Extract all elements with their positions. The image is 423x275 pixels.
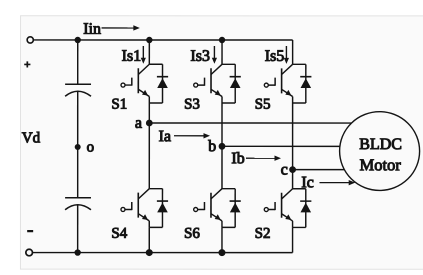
junction: capacitor / bottom bus (75, 250, 80, 255)
label + (positive polarity) (24, 61, 30, 67)
node b (phase b) (219, 143, 225, 149)
wire: phase a line to motor (149, 122, 355, 124)
junction: leg 1 / top bus (147, 37, 152, 42)
wire: capacitor branch lower (77, 205, 79, 253)
BLDC motor M1 (340, 112, 420, 191)
antiparallel diode of S6 (222, 189, 241, 228)
junction: leg 2 / top bus (219, 37, 224, 42)
junction: leg 1 / bottom bus (146, 250, 152, 256)
label S5 (256, 99, 270, 109)
wire: leg 2 bottom (lower switch to bus) (221, 227, 223, 252)
antiparallel diode of S1 (149, 64, 168, 103)
wire: leg 2 top (bus to upper switch) (221, 40, 223, 64)
current label Iin with arrow (84, 23, 140, 34)
wire: capacitor branch upper (77, 40, 79, 84)
current label Is3 with arrow (191, 46, 217, 64)
wire: capacitor branch middle (77, 91, 79, 197)
current label Ia with arrow (159, 131, 210, 142)
wire: leg 1 bottom (lower switch to bus) (148, 227, 150, 252)
capacitor upper (DC link) (65, 84, 91, 96)
label S2 (256, 228, 270, 238)
label c (281, 167, 287, 175)
node c (phase c) (290, 167, 296, 173)
label Vd (DC source voltage) (22, 132, 40, 143)
junction: leg 2 / bottom bus (219, 250, 225, 256)
junction: capacitor / top bus (75, 37, 80, 42)
transistor S1 (IGBT) (121, 64, 149, 103)
node a (phase a) (146, 120, 152, 126)
wire: leg 3 top (bus to upper switch) (292, 40, 294, 64)
wire: leg 1 middle (upper switch to lower switch) (148, 103, 150, 189)
label S1 (112, 99, 126, 109)
transistor S4 (IGBT) (121, 189, 149, 228)
transistor S2 (IGBT) (264, 189, 292, 228)
label S4 (112, 228, 127, 238)
label S3 (185, 99, 199, 109)
capacitor lower (DC link) (65, 198, 91, 210)
current label Is5 with arrow (265, 46, 289, 64)
wire: leg 3 middle (upper switch to lower switch) (292, 103, 294, 189)
wire: top DC bus (33, 39, 292, 41)
transistor S6 (IGBT) (194, 189, 222, 228)
label b (208, 140, 215, 151)
current label Ib with arrow (232, 152, 281, 163)
transistor S5 (IGBT) (264, 64, 292, 103)
wire: phase c line to motor (293, 169, 347, 171)
antiparallel diode of S3 (222, 64, 241, 103)
transistor S3 (IGBT) (194, 64, 222, 103)
antiparallel diode of S5 (293, 64, 312, 103)
negative DC input terminal (26, 249, 33, 256)
current label Ic with arrow (302, 177, 355, 188)
antiparallel diode of S2 (293, 189, 312, 228)
node o (DC midpoint) (75, 145, 80, 150)
wire: bottom DC bus (33, 252, 293, 254)
label a (135, 120, 141, 128)
wire: phase b line to motor (222, 145, 343, 147)
wire: leg 1 top (bus to upper switch) (148, 40, 150, 64)
wire: leg 3 bottom (lower switch to bus) (292, 227, 294, 252)
wire: leg 2 middle (upper switch to lower switch) (221, 103, 223, 189)
antiparallel diode of S4 (149, 189, 168, 228)
positive DC input terminal (27, 37, 33, 43)
label S6 (185, 228, 199, 238)
label - (negative polarity) (27, 230, 33, 232)
label o (87, 144, 93, 151)
current label Is1 with arrow (122, 46, 146, 64)
